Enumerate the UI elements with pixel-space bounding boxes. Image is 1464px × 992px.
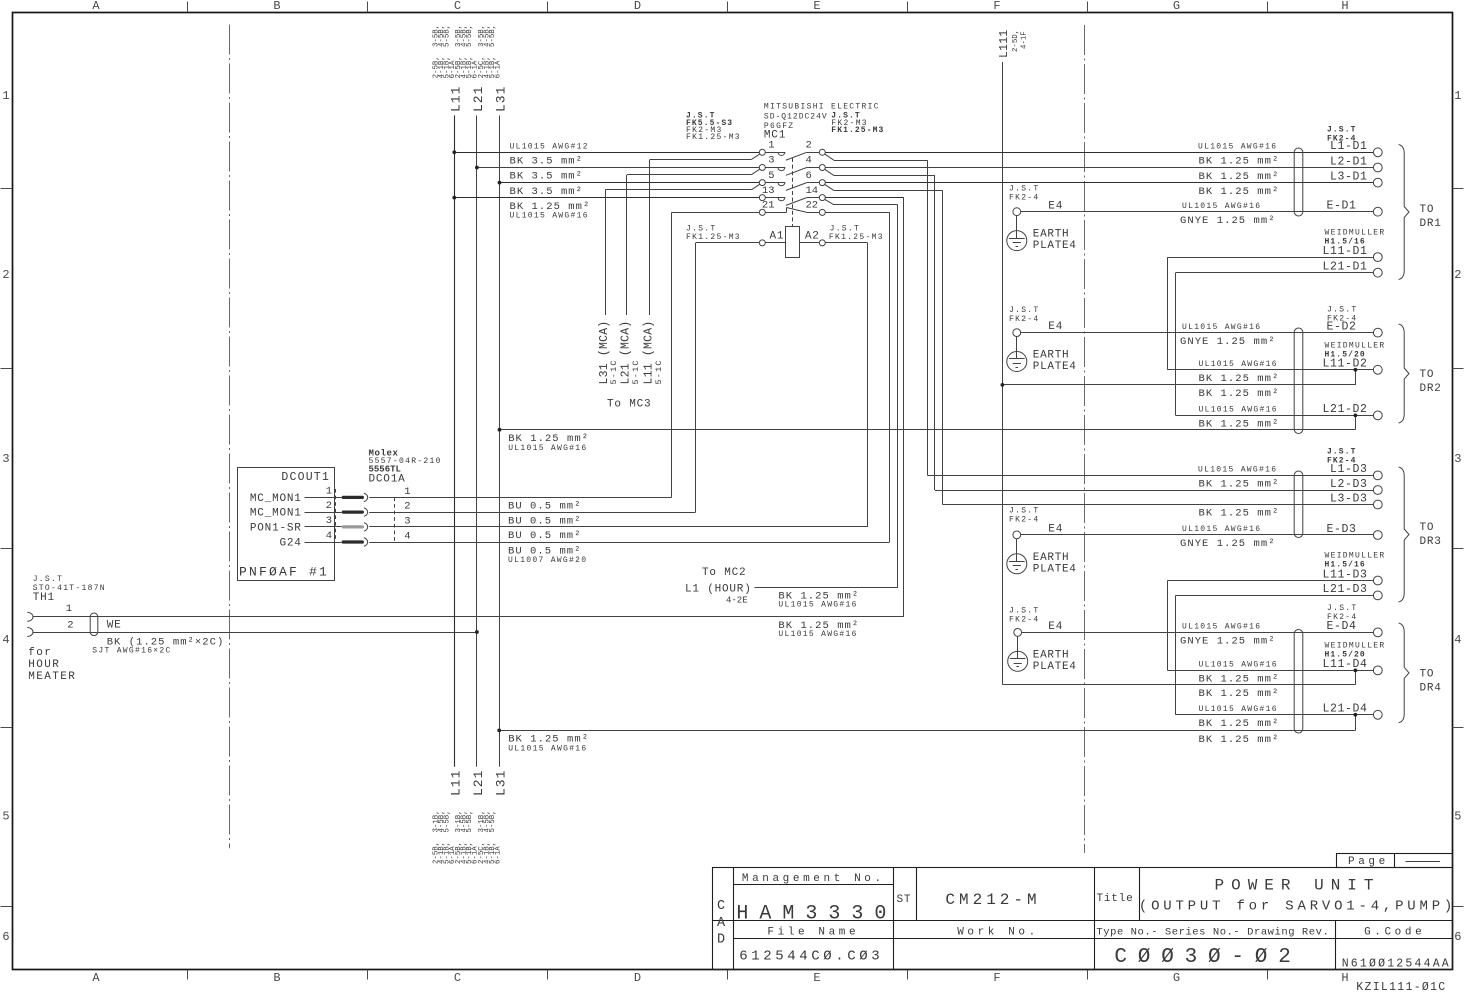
title block xyxy=(713,868,1453,970)
svg-text:HOUR: HOUR xyxy=(28,659,60,671)
wire E4 #2 to terminal E-D2 xyxy=(1021,332,1374,334)
svg-text:TO: TO xyxy=(1420,204,1435,216)
wire L21-D1 feeder xyxy=(1176,273,1374,416)
svg-text:6-1A: 6-1A xyxy=(494,60,502,78)
terminals DR1 xyxy=(1322,140,1382,277)
wire L21 to MC1 pole 3 xyxy=(477,167,760,169)
earth plate symbol #2 xyxy=(1007,337,1027,372)
contactor MC1 coil A1-A2 xyxy=(686,225,884,258)
contactor MC1 mechanical link dashed xyxy=(792,158,794,227)
svg-text:5-1C: 5-1C xyxy=(631,359,641,384)
wire DCOUT1 pin4 to MC1 contact 22 xyxy=(369,212,889,542)
wire TH1 pin 2 to bus L21 xyxy=(33,632,477,634)
svg-text:TO: TO xyxy=(1420,522,1435,534)
svg-text:5-1C: 5-1C xyxy=(654,359,664,384)
svg-text:MC_MON1: MC_MON1 xyxy=(250,493,302,505)
svg-text:BK 1.25 mm²: BK 1.25 mm² xyxy=(1199,156,1280,168)
svg-text:5-5B,: 5-5B, xyxy=(444,810,452,832)
svg-text:G: G xyxy=(1173,971,1180,985)
svg-text:22: 22 xyxy=(806,200,819,212)
svg-text:2: 2 xyxy=(67,620,73,632)
svg-text:1: 1 xyxy=(1454,89,1461,103)
svg-text:BK 1.25 mm²: BK 1.25 mm² xyxy=(1199,373,1280,385)
svg-text:21: 21 xyxy=(762,200,775,212)
wire MC1 pole 6 branch to L3-D3 xyxy=(825,184,1374,504)
svg-text:L2-D3: L2-D3 xyxy=(1330,478,1368,491)
EARTH PLATE4 label #2 xyxy=(1033,350,1077,374)
svg-text:E-D3: E-D3 xyxy=(1327,523,1357,536)
svg-text:4-1F: 4-1F xyxy=(1020,31,1028,49)
svg-text:ST: ST xyxy=(897,894,912,906)
svg-text:J.S.T: J.S.T xyxy=(1327,448,1357,457)
svg-text:GNYE 1.25 mm²: GNYE 1.25 mm² xyxy=(1180,538,1276,550)
svg-text:DCOUT1: DCOUT1 xyxy=(281,471,330,484)
contactor MC1 pole 3-4 contact xyxy=(759,155,825,176)
svg-text:E: E xyxy=(813,0,820,13)
svg-text:FK1.25-M3: FK1.25-M3 xyxy=(686,133,741,142)
bus labels bottom L11 L21 L31 xyxy=(448,770,508,796)
svg-text:L3-D3: L3-D3 xyxy=(1330,492,1368,505)
svg-text:C: C xyxy=(454,971,461,985)
svg-text:L2-D1: L2-D1 xyxy=(1330,155,1368,168)
WEIDMULLER H1.5/16 label DR3 xyxy=(1325,552,1386,570)
wire E4 #1 to terminal E-D1 xyxy=(1021,211,1374,213)
wire L111 to L11-D4 riser xyxy=(1002,669,1357,685)
svg-text:WEIDMULLER: WEIDMULLER xyxy=(1325,552,1386,561)
svg-text:MEATER: MEATER xyxy=(28,671,76,683)
svg-text:2: 2 xyxy=(1454,268,1461,282)
wire L21-D2 xyxy=(1176,415,1374,417)
svg-text:4-2E: 4-2E xyxy=(726,596,748,606)
svg-text:FK1.25-M3: FK1.25-M3 xyxy=(829,233,884,242)
svg-text:H: H xyxy=(1341,0,1348,13)
svg-text:BU 0.5 mm²: BU 0.5 mm² xyxy=(508,515,582,527)
svg-text:EARTH: EARTH xyxy=(1033,229,1070,241)
svg-text:4: 4 xyxy=(2,633,9,647)
wire L11-D1 feeder xyxy=(1168,257,1374,370)
svg-text:A: A xyxy=(717,916,726,931)
svg-text:MITSUBISHI ELECTRIC: MITSUBISHI ELECTRIC xyxy=(764,103,880,112)
terminal E4 #1 xyxy=(1009,185,1063,216)
svg-text:BK 1.25 mm²: BK 1.25 mm² xyxy=(1199,734,1280,746)
J.S.T FK2-4 label DR2 xyxy=(1327,306,1358,324)
svg-text:B: B xyxy=(273,0,280,13)
wire labels UL1015 AWG#12 BK 3.5mm2 group xyxy=(510,143,591,221)
svg-text:J.S.T: J.S.T xyxy=(33,575,64,584)
page box xyxy=(1337,853,1453,868)
svg-text:D: D xyxy=(634,971,641,985)
svg-text:D: D xyxy=(717,933,725,948)
svg-text:UL1015 AWG#12: UL1015 AWG#12 xyxy=(510,143,589,152)
svg-text:L1-D3: L1-D3 xyxy=(1330,463,1368,476)
svg-text:BK 1.25 mm²: BK 1.25 mm² xyxy=(1199,508,1280,520)
svg-text:(OUTPUT for SARVO1-4,PUMP): (OUTPUT for SARVO1-4,PUMP) xyxy=(1139,899,1456,915)
svg-text:UL1015 AWG#16: UL1015 AWG#16 xyxy=(778,630,857,639)
J.S.T FK2-4 label DR4 xyxy=(1327,604,1358,622)
junction TH1 pin2 on L21 xyxy=(475,630,479,634)
contactor MC1 pole 1-2 contact xyxy=(759,140,825,161)
svg-text:A: A xyxy=(92,0,100,13)
svg-text:612544CØ.CØ3: 612544CØ.CØ3 xyxy=(739,949,883,965)
wire MC1 contact 14 to TH1 pin 1 xyxy=(33,198,904,617)
svg-text:2: 2 xyxy=(404,501,410,513)
wire L11 to MC1 pole 1 xyxy=(454,152,759,154)
svg-text:POWER UNIT: POWER UNIT xyxy=(1214,877,1380,895)
svg-text:DR3: DR3 xyxy=(1420,536,1442,548)
svg-text:H: H xyxy=(1341,971,1348,985)
cable marker oval DR4 xyxy=(1294,630,1303,734)
BK 1.25 labels at L31 take-off upper xyxy=(508,433,589,453)
bus labels top L11 L21 L31 xyxy=(448,86,508,112)
svg-text:3: 3 xyxy=(1454,452,1461,466)
svg-text:J.S.T: J.S.T xyxy=(1327,306,1358,315)
svg-text:5: 5 xyxy=(768,170,774,182)
svg-text:1: 1 xyxy=(326,485,332,497)
svg-text:UL1015 AWG#16: UL1015 AWG#16 xyxy=(508,444,587,453)
svg-text:A1: A1 xyxy=(770,231,785,243)
svg-text:CØØ3Ø-Ø2: CØØ3Ø-Ø2 xyxy=(1114,946,1301,969)
svg-text:MC_MON1: MC_MON1 xyxy=(250,508,302,520)
brace TO DR1 xyxy=(1399,145,1442,280)
wire L21-D3 feeder xyxy=(1176,595,1374,714)
wire E4 #4 to terminal E-D4 xyxy=(1022,632,1374,634)
wire L11-D4 xyxy=(1168,670,1374,672)
svg-text:14: 14 xyxy=(806,185,819,197)
svg-text:DR2: DR2 xyxy=(1420,383,1442,395)
svg-text:BU 0.5 mm²: BU 0.5 mm² xyxy=(508,530,582,542)
svg-text:BK 1.25 mm²: BK 1.25 mm² xyxy=(1199,388,1280,400)
svg-text:UL1015 AWG#16: UL1015 AWG#16 xyxy=(1198,143,1277,152)
svg-text:2: 2 xyxy=(326,500,332,512)
svg-text:A: A xyxy=(92,971,100,985)
wire labels DR3 xyxy=(1180,466,1279,551)
svg-text:EARTH: EARTH xyxy=(1033,649,1070,661)
svg-text:J.S.T: J.S.T xyxy=(1009,306,1040,315)
svg-text:UL1015 AWG#16: UL1015 AWG#16 xyxy=(1199,360,1278,369)
svg-text:3: 3 xyxy=(404,515,410,527)
svg-text:UL1015 AWG#16: UL1015 AWG#16 xyxy=(508,745,587,754)
svg-text:H1.5/20: H1.5/20 xyxy=(1325,351,1366,360)
svg-text:H1.5/16: H1.5/16 xyxy=(1325,561,1366,570)
wire DCOUT1 pin3 to MC1 coil A2 xyxy=(369,243,867,527)
svg-text:UL1015 AWG#16: UL1015 AWG#16 xyxy=(510,211,589,220)
wire MC1 pole 4 to terminal L2-D1 xyxy=(825,167,1373,169)
svg-text:F: F xyxy=(993,0,1000,13)
terminals DR2 xyxy=(1322,320,1382,419)
svg-text:L21-D3: L21-D3 xyxy=(1322,583,1367,596)
svg-text:FK1.25-M3: FK1.25-M3 xyxy=(831,126,884,135)
node L111 label xyxy=(998,30,1028,58)
svg-text:J.S.T: J.S.T xyxy=(1009,185,1040,194)
svg-text:PLATE4: PLATE4 xyxy=(1033,661,1077,673)
svg-text:L11: L11 xyxy=(448,86,463,112)
svg-text:L11-D3: L11-D3 xyxy=(1322,568,1367,581)
svg-text:4: 4 xyxy=(326,530,332,542)
svg-text:for: for xyxy=(28,647,52,659)
wire L21-D4 xyxy=(1176,714,1374,716)
svg-text:BK 1.25 mm²: BK 1.25 mm² xyxy=(1199,419,1280,431)
wire L111 to L11-D2 riser xyxy=(1001,368,1358,387)
wire L11 to MC1 pole 13 xyxy=(454,197,759,199)
terminals DR4 xyxy=(1322,620,1382,719)
svg-text:4: 4 xyxy=(806,155,812,167)
svg-text:E4: E4 xyxy=(1048,621,1063,633)
wire L31 to L21-D2 riser xyxy=(498,414,1358,432)
wire E4 #3 to terminal E-D3 xyxy=(1021,534,1374,536)
wire labels DR1 xyxy=(1180,143,1279,227)
svg-text:BK 1.25 mm²: BK 1.25 mm² xyxy=(1199,674,1280,686)
svg-text:3: 3 xyxy=(326,515,332,527)
svg-text:6-1A: 6-1A xyxy=(494,846,502,864)
wire L31 to L21-D4 riser xyxy=(497,713,1357,732)
wire MC1 pole 2 to terminal L1-D1 xyxy=(825,152,1373,154)
svg-text:5-5B,: 5-5B, xyxy=(444,25,452,47)
node L111 vertical feeder xyxy=(1002,62,1004,685)
svg-text:UL1007 AWG#20: UL1007 AWG#20 xyxy=(508,556,587,565)
WEIDMULLER H1.5/20 label DR2 xyxy=(1325,342,1386,360)
svg-text:E-D1: E-D1 xyxy=(1327,200,1357,213)
connector DCOUT1 pin 1 MC_MON1 xyxy=(250,485,411,505)
svg-text:C: C xyxy=(454,0,461,13)
svg-text:FK2-4: FK2-4 xyxy=(1009,315,1040,324)
svg-text:GNYE 1.25 mm²: GNYE 1.25 mm² xyxy=(1180,636,1276,648)
svg-text:2: 2 xyxy=(806,140,812,152)
svg-text:DR1: DR1 xyxy=(1420,218,1442,230)
svg-text:E4: E4 xyxy=(1048,524,1063,536)
svg-text:BK 1.25 mm²: BK 1.25 mm² xyxy=(1199,186,1280,198)
svg-text:GNYE 1.25 mm²: GNYE 1.25 mm² xyxy=(1180,336,1276,348)
svg-text:L31: L31 xyxy=(494,770,509,796)
svg-text:EARTH: EARTH xyxy=(1033,552,1070,564)
svg-text:HAM3330: HAM3330 xyxy=(736,903,897,926)
svg-text:To MC3: To MC3 xyxy=(607,399,651,411)
svg-text:5: 5 xyxy=(1454,810,1461,824)
svg-text:SD-Q12DC24V: SD-Q12DC24V xyxy=(764,113,828,122)
svg-text:Management No.: Management No. xyxy=(742,873,885,885)
wire MC1 pole 2 branch to L1-D3 xyxy=(825,154,1374,475)
svg-text:2: 2 xyxy=(2,268,9,282)
svg-text:H1.5/16: H1.5/16 xyxy=(1325,238,1366,247)
svg-text:L1 (HOUR): L1 (HOUR) xyxy=(685,584,752,596)
svg-text:G.Code: G.Code xyxy=(1364,927,1425,939)
svg-text:UL1015 AWG#16: UL1015 AWG#16 xyxy=(1182,323,1261,332)
junction dots on buses xyxy=(452,150,501,199)
svg-text:4: 4 xyxy=(404,530,410,542)
svg-text:BK 1.25 mm²: BK 1.25 mm² xyxy=(1199,479,1280,491)
contactor MC1 pole 13-14 contact xyxy=(759,185,825,206)
svg-text:FK2-4: FK2-4 xyxy=(1009,616,1040,625)
svg-text:WEIDMULLER: WEIDMULLER xyxy=(1325,342,1386,351)
svg-text:N61ØØ12544AA: N61ØØ12544AA xyxy=(1342,958,1451,971)
svg-text:1: 1 xyxy=(66,603,72,615)
svg-text:1: 1 xyxy=(404,486,410,498)
cable marker oval DR2 xyxy=(1294,328,1303,434)
svg-text:1: 1 xyxy=(768,140,774,152)
svg-text:PLATE4: PLATE4 xyxy=(1033,240,1077,252)
earth plate symbol #3 xyxy=(1007,539,1027,574)
svg-text:5-5B,: 5-5B, xyxy=(466,25,474,47)
svg-text:G: G xyxy=(1173,0,1180,13)
svg-text:TO: TO xyxy=(1420,369,1435,381)
svg-text:UL1015 AWG#16: UL1015 AWG#16 xyxy=(1198,466,1277,475)
svg-text:KZIL111-Ø1C: KZIL111-Ø1C xyxy=(1356,981,1446,992)
wire MC1 pole 4 branch to L2-D3 xyxy=(825,169,1374,490)
TH1 cable labels xyxy=(28,620,224,684)
svg-text:EARTH: EARTH xyxy=(1033,350,1070,362)
wire labels DR2 xyxy=(1180,323,1279,431)
svg-text:BK 3.5 mm²: BK 3.5 mm² xyxy=(510,171,584,183)
svg-text:A2: A2 xyxy=(805,231,820,243)
To MC2 L1(HOUR) labels xyxy=(685,567,859,639)
wire DCOUT1 pin2 to MC1 coil A1 xyxy=(369,243,759,513)
svg-text:L21: L21 xyxy=(471,86,486,112)
svg-text:GNYE 1.25 mm²: GNYE 1.25 mm² xyxy=(1180,215,1276,227)
svg-text:J.S.T: J.S.T xyxy=(1327,126,1357,135)
EARTH PLATE4 label #4 xyxy=(1033,649,1077,673)
svg-text:E-D4: E-D4 xyxy=(1327,620,1357,633)
svg-text:FK2-4: FK2-4 xyxy=(1009,194,1040,203)
terminal E4 #4 xyxy=(1009,607,1063,637)
wire MC1 contact 14 branch to MC2 L1(HOUR) xyxy=(755,199,898,587)
svg-text:L11-D1: L11-D1 xyxy=(1322,245,1367,258)
wire L11-D3 feeder xyxy=(1168,581,1374,671)
svg-text:BU 0.5 mm²: BU 0.5 mm² xyxy=(508,501,582,513)
To MC3 stub labels xyxy=(598,321,664,411)
svg-text:E: E xyxy=(813,971,820,985)
svg-text:6: 6 xyxy=(806,170,812,182)
svg-text:5: 5 xyxy=(2,810,9,824)
svg-text:WEIDMULLER: WEIDMULLER xyxy=(1325,229,1386,238)
svg-text:2-5D,: 2-5D, xyxy=(1012,30,1020,52)
brace TO DR3 xyxy=(1399,467,1442,602)
svg-text:J.S.T: J.S.T xyxy=(1009,607,1040,616)
BU wire labels xyxy=(508,501,587,565)
svg-text:File Name: File Name xyxy=(767,927,859,939)
svg-text:WE: WE xyxy=(107,620,122,632)
bus L11 xyxy=(454,115,456,766)
panel boundary dash-dot line right xyxy=(1084,25,1086,853)
bus L21 xyxy=(476,115,478,766)
svg-text:B: B xyxy=(273,971,280,985)
svg-text:E4: E4 xyxy=(1048,321,1063,333)
svg-text:L21-D4: L21-D4 xyxy=(1322,703,1367,716)
terminals DR3 xyxy=(1322,463,1382,600)
svg-text:DR4: DR4 xyxy=(1420,683,1442,695)
svg-text:5-5B,: 5-5B, xyxy=(489,25,497,47)
svg-text:5-5B,: 5-5B, xyxy=(489,810,497,832)
svg-text:6: 6 xyxy=(1454,930,1461,944)
terminal E4 #2 xyxy=(1009,306,1063,337)
svg-text:UL1015 AWG#16: UL1015 AWG#16 xyxy=(778,601,857,610)
BK 1.25 labels at L31 take-off lower xyxy=(508,734,589,754)
cable marker oval DR3 xyxy=(1294,471,1303,538)
contactor MC1 labels xyxy=(686,103,884,143)
svg-text:L111: L111 xyxy=(998,30,1011,58)
svg-text:L11-D2: L11-D2 xyxy=(1322,358,1367,371)
svg-text:C: C xyxy=(717,899,725,914)
earth plate symbol #1 xyxy=(1007,216,1027,251)
svg-text:SJT AWG#16×2C: SJT AWG#16×2C xyxy=(92,647,171,656)
svg-text:E-D2: E-D2 xyxy=(1327,320,1357,333)
svg-text:FK1.25-M3: FK1.25-M3 xyxy=(686,233,741,242)
svg-text:PLATE4: PLATE4 xyxy=(1033,361,1077,373)
svg-text:Type No.- Series No.- Drawing: Type No.- Series No.- Drawing Rev. xyxy=(1096,927,1329,939)
svg-text:WEIDMULLER: WEIDMULLER xyxy=(1325,642,1386,651)
svg-text:13: 13 xyxy=(762,185,775,197)
svg-text:PLATE4: PLATE4 xyxy=(1033,563,1077,575)
title block texts xyxy=(717,873,1456,971)
svg-text:L21-D2: L21-D2 xyxy=(1322,403,1367,416)
svg-text:UL1015 AWG#16: UL1015 AWG#16 xyxy=(1199,661,1278,670)
svg-text:UL1015 AWG#16: UL1015 AWG#16 xyxy=(1182,202,1261,211)
svg-text:TO: TO xyxy=(1420,669,1435,681)
svg-text:L21-D1: L21-D1 xyxy=(1322,261,1367,274)
svg-text:1: 1 xyxy=(2,89,9,103)
J.S.T FK2-4 label DR1 xyxy=(1327,126,1357,144)
svg-text:Work No.: Work No. xyxy=(957,927,1039,939)
svg-text:TH1: TH1 xyxy=(33,592,55,604)
cable marker oval TH1 xyxy=(90,613,98,636)
wire labels DR4 xyxy=(1180,623,1279,746)
EARTH PLATE4 label #1 xyxy=(1033,229,1077,253)
svg-text:L3-D1: L3-D1 xyxy=(1330,170,1368,183)
svg-text:5-1C: 5-1C xyxy=(609,359,619,384)
svg-text:L11: L11 xyxy=(448,770,463,796)
EARTH PLATE4 label #3 xyxy=(1033,552,1077,576)
WEIDMULLER H1.5/20 label DR4 xyxy=(1325,642,1386,660)
panel boundary dash-dot line left xyxy=(229,25,231,849)
svg-text:Page: Page xyxy=(1348,856,1389,868)
earth plate symbol #4 xyxy=(1008,636,1028,671)
svg-text:H1.5/20: H1.5/20 xyxy=(1325,651,1366,660)
svg-text:BK 1.25 mm²: BK 1.25 mm² xyxy=(1199,718,1280,730)
svg-text:BK 1.25 mm²: BK 1.25 mm² xyxy=(1199,688,1280,700)
svg-text:3: 3 xyxy=(768,155,774,167)
svg-text:UL1015 AWG#16: UL1015 AWG#16 xyxy=(1182,623,1261,632)
wire L11-D2 xyxy=(1168,369,1374,371)
svg-text:5-5B,: 5-5B, xyxy=(466,810,474,832)
connector DCOUT1 labels xyxy=(239,449,442,580)
svg-text:PON1-SR: PON1-SR xyxy=(250,522,302,534)
svg-text:Title: Title xyxy=(1097,893,1134,905)
svg-text:CM212-M: CM212-M xyxy=(945,891,1040,909)
svg-text:E4: E4 xyxy=(1048,200,1063,212)
connector DCOUT1 mating dashed lines xyxy=(336,489,395,541)
svg-text:L1-D1: L1-D1 xyxy=(1330,140,1368,153)
svg-text:PNFØAF #1: PNFØAF #1 xyxy=(239,565,329,580)
wire MC1 pole 6 to terminal L3-D1 xyxy=(825,182,1373,184)
contactor MC1 pole 21-22 contact xyxy=(759,200,825,216)
svg-text:DCO1A: DCO1A xyxy=(369,474,406,486)
svg-text:To MC2: To MC2 xyxy=(702,567,746,579)
svg-text:L11-D4: L11-D4 xyxy=(1322,658,1367,671)
WEIDMULLER H1.5/16 label DR1 xyxy=(1325,229,1386,247)
wire stub L31 (MCA) to MC3 xyxy=(605,184,760,315)
svg-text:FK2-4: FK2-4 xyxy=(1009,516,1040,525)
svg-text:D: D xyxy=(634,0,641,13)
svg-text:L21: L21 xyxy=(471,770,486,796)
cross-reference labels bottom of buses xyxy=(433,810,503,864)
J.S.T FK2-4 label DR3 xyxy=(1327,448,1357,466)
cross-reference labels top of buses xyxy=(433,25,503,79)
connector DCOUT1 pin 2 MC_MON1 xyxy=(250,500,411,519)
connector DCOUT1 box xyxy=(238,468,335,581)
svg-text:F: F xyxy=(993,971,1000,985)
brace TO DR4 xyxy=(1399,623,1442,723)
svg-text:UL1015 AWG#16: UL1015 AWG#16 xyxy=(1199,705,1278,714)
svg-text:6: 6 xyxy=(2,930,9,944)
wire DCOUT1 pin1 to MC1 contact 21 xyxy=(369,212,759,497)
